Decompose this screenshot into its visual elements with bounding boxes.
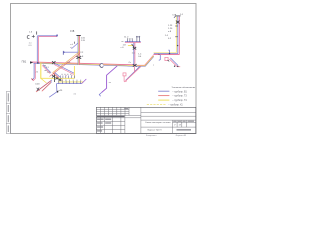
dark marks near yellow stub xyxy=(132,44,134,47)
riser St.V1-1 pair blue xyxy=(133,42,135,64)
svg-text:ГВ1: ГВ1 xyxy=(22,59,27,63)
purple branch end hook (blue) xyxy=(99,93,101,97)
inlet arrow xyxy=(30,61,33,64)
valve on riser St.V1-2 xyxy=(76,56,81,58)
riser St.V1-1 right: blue xyxy=(177,16,179,54)
diag end marks xyxy=(37,88,40,91)
blue branch left from riser xyxy=(63,51,78,53)
svg-text:Копировал: Копировал xyxy=(146,135,157,137)
legend row 1 sample blue xyxy=(158,90,169,92)
row A numbering marks xyxy=(62,74,72,75)
header underline xyxy=(96,117,140,119)
riser top hook xyxy=(174,16,176,18)
svg-text:Условные обозначения: Условные обозначения xyxy=(172,87,196,89)
red diagonal through cluster xyxy=(50,53,81,76)
T2 short diagonal right end xyxy=(82,79,87,84)
radiator ticks row A xyxy=(61,76,75,79)
pink stub below junction xyxy=(133,66,135,72)
bottom stub pink xyxy=(177,66,180,68)
diagonal pair to junction: blue xyxy=(126,66,141,81)
tap J2 above line xyxy=(168,50,169,53)
row lines left xyxy=(96,121,125,123)
box corner yellow diagonal xyxy=(41,78,47,83)
riser top cap xyxy=(175,15,180,17)
branch to appliance: pink xyxy=(38,36,57,38)
row B red dot xyxy=(61,79,64,81)
main right run to slope: pink xyxy=(137,55,154,65)
valve on main bundle xyxy=(52,61,56,64)
svg-text:Формат А3: Формат А3 xyxy=(176,134,187,137)
svg-text:Вариант №173: Вариант №173 xyxy=(148,128,163,131)
drop pair to lower floor: blue xyxy=(32,63,34,80)
svg-text:– трубопр. К1: – трубопр. К1 xyxy=(168,105,183,107)
drop pair end mark xyxy=(31,79,33,81)
T2 left drop xyxy=(56,84,58,92)
corner diagonal pair blue xyxy=(43,65,51,73)
title block outline xyxy=(96,107,195,133)
drawing frame xyxy=(11,4,197,134)
row B numbering marks xyxy=(62,80,81,81)
return line T2 (blue) with fixtures xyxy=(57,83,82,85)
branch mark tick xyxy=(74,42,76,44)
drop pair to lower floor: pink xyxy=(33,64,35,81)
main right run to slope: blue xyxy=(137,56,154,66)
valve marks near symbol xyxy=(32,35,35,38)
svg-text:СтВ: СтВ xyxy=(70,31,75,33)
branch diagonal pair into flat: pink xyxy=(54,64,74,74)
apartment box yellow left xyxy=(40,62,42,78)
heat unit diagonals: blue down-left xyxy=(37,80,52,91)
left column tiny texts xyxy=(97,119,111,132)
right section rows xyxy=(141,111,196,113)
left margin stamp column rotated text xyxy=(7,93,10,132)
branch diagonal pair into flat: blue xyxy=(55,63,75,73)
riser St.V1-1 right: pink xyxy=(178,16,180,54)
node on riser xyxy=(177,45,178,46)
left grid verticals xyxy=(100,107,102,115)
riser St.V1-2 pink xyxy=(79,36,81,65)
upper run yellow xyxy=(154,52,177,54)
apartment box yellow right xyxy=(73,66,75,78)
upper run pink xyxy=(153,54,179,56)
top distribution pink xyxy=(125,42,141,44)
radiator ticks row B xyxy=(59,81,81,83)
left margin stamp column xyxy=(6,92,10,134)
small cell text xyxy=(124,108,128,109)
vent tick above corner xyxy=(36,31,38,34)
diagonal pair down-right: pink xyxy=(169,59,177,67)
blue branch end tee xyxy=(63,51,65,55)
diagonal pair down-right: blue xyxy=(170,58,178,66)
pipe B1 main bundle: cold (blue) line xyxy=(34,63,135,66)
taps small xyxy=(128,38,140,42)
second diagonal pair blue xyxy=(43,82,52,91)
small branch marks left of riser xyxy=(72,43,78,49)
department cell text xyxy=(177,129,192,130)
right section divider xyxy=(140,107,142,133)
heat unit cluster dark valves xyxy=(52,74,61,83)
main right run to slope: yellow xyxy=(137,56,154,66)
legend row 4 sample pale yellow xyxy=(147,104,166,106)
column lines below header xyxy=(100,115,102,133)
svg-text:СтВ: СтВ xyxy=(172,14,177,16)
tap circles xyxy=(136,36,137,37)
sink F1 square xyxy=(123,73,126,76)
riser St.V1-2 yellow xyxy=(78,36,80,65)
valve on riser St.V1-1 xyxy=(133,47,136,49)
svg-text:– трубопр. В1: – трубопр. В1 xyxy=(172,91,187,93)
pump circle xyxy=(100,64,103,68)
stub nodes xyxy=(174,66,175,67)
tap J2 node xyxy=(169,53,170,54)
riser St.V1-2 blue xyxy=(77,36,79,65)
mini grid xyxy=(172,120,174,133)
valve on riser top xyxy=(176,21,180,24)
branch to appliance: blue xyxy=(37,35,57,37)
node at riser A base xyxy=(37,62,39,64)
heat unit diagonals: red down-left xyxy=(36,81,51,92)
purple branch diagonal from main xyxy=(102,66,118,93)
riser St.V1-3 pair (pink) xyxy=(37,37,39,63)
riser St.V1-1 right: yellow xyxy=(175,16,177,52)
riser St.V1-1 pair pink xyxy=(134,42,136,64)
pipe T3 main bundle: yellow line xyxy=(41,63,135,66)
branch end cap xyxy=(56,35,58,37)
drain node xyxy=(57,91,59,93)
heat unit red marks xyxy=(53,73,58,78)
sink F2 corner mark xyxy=(168,60,170,61)
corner diagonal pair pink xyxy=(42,65,50,73)
svg-text:пг: пг xyxy=(122,41,124,43)
tap caps xyxy=(127,38,133,40)
sheet background xyxy=(0,0,200,141)
svg-text:– трубопр. Т4: – трубопр. Т4 xyxy=(172,100,187,102)
yellow lower run xyxy=(58,81,84,83)
legend row 2 sample red xyxy=(158,95,169,97)
heat unit blue marks xyxy=(55,73,60,77)
pipe B1 main bundle: hot (pink) line xyxy=(30,62,134,65)
svg-text:– трубопр. Т3: – трубопр. Т3 xyxy=(172,96,187,98)
left grid horizontals xyxy=(96,108,129,110)
yellow stub top xyxy=(128,45,133,47)
second diagonal pair red xyxy=(42,83,51,92)
drain diagonal xyxy=(49,92,57,97)
riser top cap xyxy=(76,35,80,37)
diagonal pair to junction: pink xyxy=(125,66,141,82)
tick at y26 xyxy=(175,25,178,27)
sink F1 tail xyxy=(124,76,127,81)
tap J1 below line xyxy=(159,55,161,61)
expansion symbol xyxy=(27,35,29,38)
svg-text:Ст: Ст xyxy=(129,62,132,64)
orange diagonal through cluster xyxy=(53,51,81,72)
header row text Izm List N dokum xyxy=(97,116,125,117)
mini grid header texts xyxy=(173,121,194,122)
top distribution blue xyxy=(125,41,141,43)
tick at y37 xyxy=(175,36,178,38)
upper run blue xyxy=(154,53,178,55)
sink F2 square xyxy=(165,57,168,60)
legend row 3 sample yellow xyxy=(158,99,169,101)
apartment box yellow bottom xyxy=(40,77,74,79)
junction valve dark xyxy=(133,64,137,67)
radiator row A red dots xyxy=(66,74,73,76)
riser St.V1-3 pair (blue) xyxy=(36,36,38,63)
svg-text:Схема смонтиров. системы: Схема смонтиров. системы xyxy=(145,122,171,124)
